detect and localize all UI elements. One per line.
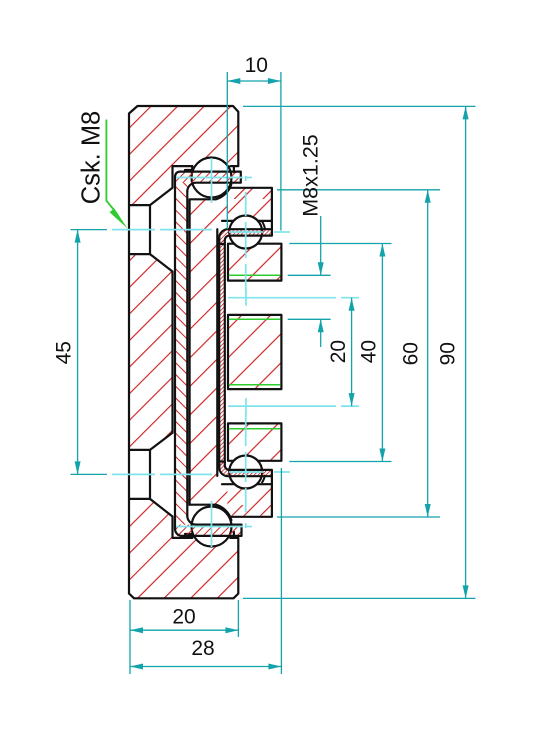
dim 28 line — [130, 666, 281, 668]
M8 reference lines — [288, 274, 331, 276]
member D top flange (over ball B2) — [219, 229, 272, 244]
dim 20 vertical line — [351, 298, 353, 406]
dim 40 extensions — [289, 243, 391, 245]
M8 arrows (outside) — [318, 262, 324, 275]
ball B3 cross — [229, 471, 263, 473]
dim 40 line — [381, 244, 383, 462]
dim 10 line — [227, 80, 281, 82]
member E outline — [222, 188, 281, 517]
dim 20 vertical arrows — [349, 298, 355, 311]
svg-text:Csk. M8: Csk. M8 — [78, 111, 106, 205]
inner rail member D (folded sheet, candy stripe) web — [219, 240, 225, 466]
light cyan centerlines — [112, 158, 359, 547]
member C outline — [190, 184, 232, 520]
tapped hole 1 centerline — [228, 297, 336, 299]
tapped hole 2 centerline — [228, 405, 336, 407]
dimension lines (teal) — [71, 72, 476, 674]
dim 60 arrows — [425, 190, 431, 203]
middle slide member C hatched body — [190, 188, 272, 516]
member B bottom flange (over ball B4) — [175, 525, 242, 536]
member D bottom flange (over ball B3) — [219, 462, 272, 477]
svg-text:28: 28 — [191, 637, 214, 660]
outer plate (member A) outline — [129, 106, 238, 598]
csk hole 1 centerline — [112, 229, 155, 231]
outer mounting plate (member A) hatched body — [129, 106, 238, 598]
leader Csk. M8 (green) — [106, 120, 127, 229]
dim 20 bottom arrows — [130, 627, 143, 633]
svg-text:90: 90 — [437, 342, 460, 365]
svg-text:M8x1.25: M8x1.25 — [299, 134, 323, 217]
dim 28 extension — [280, 468, 282, 674]
ball B1 cross — [176, 177, 243, 179]
dim 20 bottom extensions — [129, 600, 131, 674]
outer rail member B (folded sheet) web — [175, 183, 187, 525]
ball B4 cross — [176, 526, 243, 528]
ball bearing bottom-right B3 — [229, 456, 262, 489]
member B top flange (over ball B1) — [175, 172, 241, 183]
svg-text:20: 20 — [327, 340, 350, 363]
dim 90 line — [465, 106, 467, 598]
dim 60 extensions — [277, 189, 440, 191]
ball bearing top-left B1 — [192, 158, 232, 198]
dim 45 arrows — [75, 230, 81, 243]
dim 60 line — [427, 190, 429, 517]
svg-text:10: 10 — [245, 54, 268, 77]
dim 10 extension lines — [226, 72, 228, 229]
dim 40 arrows — [379, 244, 385, 257]
dim 45 line — [77, 230, 79, 475]
thread lines (green) — [229, 275, 281, 428]
csk hole 2 centerline — [112, 473, 155, 475]
dim 10 arrows — [227, 78, 240, 84]
drawer member E (right column with tapped holes) hatched body — [227, 188, 281, 517]
dim 20 bottom line — [130, 629, 238, 631]
dim 28 arrows — [130, 664, 143, 670]
svg-text:20: 20 — [172, 606, 195, 629]
ball B2 cross — [229, 231, 263, 233]
csk centerline dark segments — [71, 229, 108, 231]
dim 90 arrows — [463, 106, 469, 119]
svg-text:45: 45 — [53, 341, 76, 364]
svg-text:60: 60 — [400, 342, 423, 365]
raceway arc in E at ball B2 — [262, 221, 265, 229]
dimension arrowheads — [75, 78, 469, 670]
svg-text:40: 40 — [358, 340, 381, 363]
ball bearing bottom-left B4 — [192, 507, 232, 547]
member B outline — [175, 172, 242, 536]
ball bearing top-right B2 — [229, 216, 262, 249]
dim 90 extensions — [243, 105, 476, 107]
raceway arc in E at ball B3 — [262, 475, 265, 483]
